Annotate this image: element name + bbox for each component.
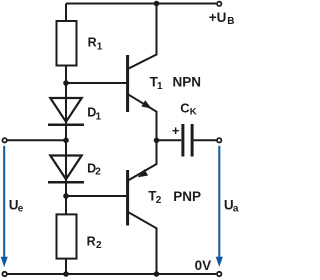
- wire: T2 emitter from output node: [128, 140, 157, 180]
- diode D2: [48, 156, 84, 183]
- T2 emitter arrow (PNP, pointing inward): [136, 169, 148, 180]
- resistor R1: [57, 21, 77, 66]
- node: R2 at bottom rail: [63, 271, 69, 277]
- svg-text:1: 1: [157, 81, 163, 92]
- node: R1 / D1 / T1 base junction: [63, 80, 69, 86]
- wire: T1 base wire: [66, 82, 126, 84]
- svg-text:1: 1: [97, 41, 103, 52]
- svg-text:+U: +U: [209, 10, 227, 25]
- wire: 0V bottom rail: [6, 273, 216, 275]
- resistor R2: [57, 214, 77, 258]
- wire: R2 to bottom rail: [65, 259, 67, 274]
- svg-text:a: a: [233, 203, 239, 214]
- svg-text:+: +: [172, 123, 180, 138]
- node: D1 / D2 / input junction: [63, 138, 69, 144]
- terminal +UB: [217, 2, 221, 6]
- svg-text:2: 2: [156, 195, 162, 206]
- node: emitter output junction: [154, 138, 160, 144]
- wire: T2 base wire: [66, 195, 126, 197]
- terminal 0V right: [217, 272, 221, 276]
- terminal 0V left: [2, 272, 6, 276]
- svg-text:0V: 0V: [195, 258, 212, 273]
- transistor T2 base bar: [126, 170, 129, 226]
- wire: T1 emitter: [128, 94, 157, 140]
- node: T1 collector junction on top rail: [154, 1, 160, 7]
- arrow Ua (output voltage): [216, 146, 223, 267]
- svg-text:R: R: [88, 35, 97, 49]
- wire: +UB top supply rail: [66, 3, 216, 5]
- wire: T1 collector to top rail: [128, 4, 157, 69]
- svg-text:K: K: [190, 107, 197, 118]
- diode D1: [48, 98, 84, 125]
- svg-text:e: e: [18, 204, 24, 215]
- svg-text:R: R: [87, 235, 96, 249]
- svg-text:PNP: PNP: [173, 189, 201, 204]
- wire: output node to capacitor: [157, 139, 182, 141]
- svg-text:B: B: [227, 16, 234, 27]
- capacitor CK: [183, 124, 192, 157]
- svg-text:1: 1: [96, 111, 102, 122]
- wire: capacitor to output terminal: [194, 139, 217, 141]
- node: D2 / R2 / T2 base junction: [63, 193, 69, 199]
- node: T2 collector at bottom rail: [154, 271, 160, 277]
- terminal output Ua: [217, 138, 221, 142]
- arrow Ue (input voltage): [1, 146, 8, 267]
- wire: T2 collector to bottom rail: [128, 212, 157, 274]
- svg-text:C: C: [180, 101, 190, 116]
- svg-text:2: 2: [95, 166, 101, 177]
- svg-text:NPN: NPN: [173, 75, 202, 90]
- T1 emitter arrow (NPN, pointing outward): [141, 100, 153, 112]
- wire: input wire to Ue terminal: [6, 139, 66, 141]
- terminal input Ue: [2, 138, 6, 142]
- transistor T1 base bar: [126, 55, 129, 112]
- wire: top rail to R1: [65, 4, 67, 23]
- wire: left vertical chain R1-D1-D2-R2: [65, 66, 67, 215]
- svg-text:2: 2: [96, 240, 102, 251]
